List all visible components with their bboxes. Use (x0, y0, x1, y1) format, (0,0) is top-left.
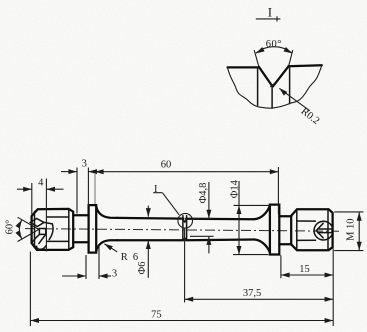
dim 75 line (30, 320, 333, 322)
rod bottom edge right (186, 238, 254, 241)
right centre hole slot upper (318, 228, 332, 230)
notch top dip (183, 219, 187, 222)
svg-text:75: 75 (151, 309, 162, 320)
rod top edge left (118, 217, 184, 220)
dim 15 line (281, 274, 333, 276)
detail wall left (257, 67, 259, 105)
dim phi4.8 line lower (208, 236, 210, 253)
right centre hole cone upper flank (316, 223, 323, 230)
right flange (270, 205, 279, 255)
left centre hole lower edge (39, 234, 46, 243)
right neck top (279, 215, 291, 217)
dim 3 bottom ext right (98, 245, 100, 280)
leader R6 (103, 242, 113, 251)
detail circle I (178, 213, 193, 228)
left head chamfer edge left (34, 211, 36, 247)
left centre hole edge upper (44, 222, 52, 224)
svg-text:15: 15 (299, 264, 310, 275)
dim M10 ext upper (334, 211, 363, 213)
detail break line left (228, 68, 272, 108)
dim 60 ext left (94, 174, 96, 204)
right head relief line upper (297, 220, 316, 222)
leader R0.2 (278, 86, 288, 95)
notch groove left wall (182, 216, 184, 241)
svg-text:Φ4,8: Φ4,8 (198, 183, 209, 204)
dim M10 line (358, 212, 360, 251)
svg-text:M 10: M 10 (345, 218, 356, 240)
left centre hole scallops (32, 242, 46, 249)
dim phi14 ext lower (233, 254, 268, 256)
svg-text:60°: 60° (266, 39, 282, 50)
detail flank extension right (289, 50, 293, 66)
detail V flank right (273, 66, 289, 86)
dim 3 top line (61, 171, 77, 173)
notch bottom dip (183, 238, 187, 240)
dim 60 line (95, 171, 278, 173)
centerline main axis (25, 229, 339, 232)
rod top edge right (186, 218, 253, 221)
left fillet R6 bottom (96, 240, 117, 251)
dim phi6 line lower (147, 240, 149, 277)
svg-text:3: 3 (82, 159, 87, 170)
right centre hole cone lower flank (316, 231, 323, 238)
rod bottom edge left (118, 239, 184, 241)
svg-text:Φ14: Φ14 (229, 179, 240, 198)
svg-text:37,5: 37,5 (243, 288, 261, 299)
left head face line lower (47, 240, 69, 242)
dim phi4.8 ext lower (190, 235, 214, 237)
dim 3 bottom line (62, 275, 86, 277)
right fillet bottom (254, 240, 270, 253)
dim 60deg arc (19, 220, 22, 239)
left centre hole pilot (39, 229, 45, 235)
svg-text:60: 60 (161, 160, 172, 171)
right neck bottom (279, 243, 291, 245)
detail V flank left (259, 67, 272, 86)
right fillet top (254, 205, 270, 219)
ext line right flange (280, 255, 282, 278)
dim M10 ext lower (334, 250, 363, 252)
right centre hole slot lower (318, 232, 332, 234)
dim phi6 line upper (147, 206, 149, 217)
detail flank extension left (254, 50, 259, 67)
dim 3 top ext right (87, 168, 89, 207)
left centre hole rim right (49, 224, 53, 240)
left neck bottom (73, 241, 88, 243)
dim 3 top ext left (76, 168, 78, 214)
detail 60deg arc (256, 47, 292, 54)
ext line notch centre (184, 228, 186, 302)
left head chamfer edge right (68, 209, 70, 250)
svg-text:3: 3 (112, 268, 117, 279)
left head outline (32, 209, 74, 250)
notch groove right wall (186, 216, 188, 241)
dim 3 bottom ext left (85, 255, 87, 279)
dim 4 ext right (45, 179, 47, 252)
left head face line upper (47, 216, 69, 218)
right head chamfer edge right (327, 209, 329, 250)
left neck top (73, 214, 88, 216)
detail wall right (289, 66, 291, 103)
left centre hole lower face (32, 234, 39, 242)
right centre hole rim upper (321, 221, 332, 227)
svg-text:R 6: R 6 (121, 252, 139, 263)
dim phi4.8 line upper (208, 182, 210, 218)
detail root tick 2 (270, 83, 275, 87)
detail surface left (228, 66, 260, 68)
dim 60deg cone flank upper (18, 217, 39, 229)
svg-text:I: I (268, 5, 272, 20)
left fillet R6 top (96, 207, 117, 218)
svg-text:60°: 60° (5, 220, 16, 235)
dim phi14 line (238, 181, 240, 255)
right centre hole rim lower (321, 234, 332, 240)
right centre hole rim left (314, 222, 321, 240)
ext line right end (332, 248, 334, 326)
dim phi14 ext upper (234, 204, 271, 206)
ext line left end (29, 252, 31, 327)
right head relief line lower (297, 239, 316, 241)
dim 4 line (17, 188, 32, 190)
dim 37.5 line (185, 298, 334, 300)
svg-text:4: 4 (38, 177, 44, 188)
dim 60 ext right (277, 167, 279, 215)
leader I (163, 193, 180, 215)
svg-text:Φ6: Φ6 (137, 262, 148, 275)
detail root line (271, 87, 273, 109)
right head chamfer edge left (296, 209, 298, 250)
detail break line right (272, 66, 322, 109)
dim 60deg cone flank lower (18, 229, 39, 241)
dim phi4.8 ext upper (187, 217, 214, 219)
right head outline (291, 209, 332, 250)
left centre hole cone face (30, 219, 44, 227)
left flange (89, 205, 97, 253)
detail root tick 1 (268, 80, 272, 86)
dim 4 ext left (31, 183, 33, 215)
detail surface right (289, 65, 322, 66)
